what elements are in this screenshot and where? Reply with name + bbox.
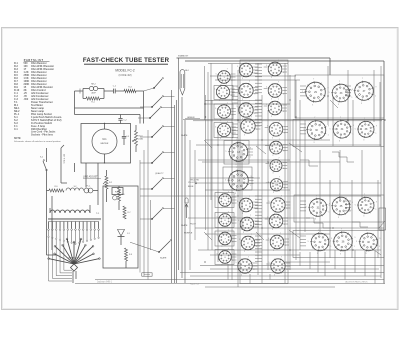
svg-text:R-7: R-7	[128, 212, 131, 214]
meter M-1	[92, 129, 117, 154]
svg-text:5: 5	[226, 151, 227, 153]
svg-text:YELLOW: YELLOW	[190, 180, 199, 182]
label YELLOW BLUE	[188, 182, 197, 188]
tube socket 38	[355, 118, 377, 141]
svg-text:9: 9	[376, 202, 377, 204]
svg-text:1: 1	[254, 269, 255, 271]
svg-text:7: 7	[281, 257, 282, 259]
svg-text:7: 7	[250, 215, 251, 217]
switch S-1e	[140, 178, 175, 190]
svg-text:1: 1	[255, 227, 256, 229]
svg-text:3: 3	[312, 105, 313, 107]
interconnect horizontal wires	[75, 76, 385, 287]
svg-text:5: 5	[216, 73, 217, 75]
svg-text:3: 3	[242, 99, 243, 101]
switch S-3 power	[40, 148, 47, 191]
svg-text:7: 7	[341, 229, 342, 231]
svg-text:7: 7	[279, 139, 280, 141]
svg-text:3: 3	[220, 119, 221, 121]
svg-text:7: 7	[226, 83, 227, 85]
svg-text:5: 5	[236, 262, 237, 264]
resistor R-7	[123, 206, 130, 219]
svg-text:7: 7	[249, 81, 250, 83]
svg-text:5: 5	[217, 196, 218, 198]
svg-text:7: 7	[249, 101, 250, 103]
svg-text:9: 9	[352, 202, 353, 204]
svg-text:3: 3	[315, 219, 316, 221]
svg-text:9: 9	[328, 88, 329, 90]
svg-text:1: 1	[287, 208, 288, 210]
svg-text:1: 1	[283, 111, 284, 113]
transformer T-1 secondary taps	[48, 222, 100, 231]
svg-text:1: 1	[287, 269, 288, 271]
svg-text:X-1: X-1	[14, 128, 18, 131]
svg-text:9: 9	[353, 125, 354, 127]
svg-text:1: 1	[250, 156, 251, 158]
svg-text:7: 7	[279, 158, 280, 160]
tube socket 14	[225, 167, 252, 195]
svg-text:1: 1	[328, 134, 329, 136]
svg-text:5: 5	[225, 180, 226, 182]
svg-text:METER: METER	[101, 143, 109, 145]
tube socket 21	[266, 99, 284, 118]
svg-text:3: 3	[244, 251, 245, 253]
svg-text:7: 7	[318, 230, 319, 232]
wire left drop	[47, 191, 57, 256]
svg-text:S-2: S-2	[74, 186, 77, 188]
svg-text:7: 7	[279, 120, 280, 122]
meter M-1 box	[81, 124, 131, 164]
tube socket 20	[266, 82, 284, 101]
svg-text:3: 3	[243, 232, 244, 234]
terminal strip	[142, 273, 152, 276]
fuse F-1	[112, 188, 123, 201]
svg-text:3: 3	[338, 217, 339, 219]
tube socket 26	[267, 212, 285, 231]
svg-text:Jackson 648-1: Jackson 648-1	[97, 282, 113, 284]
svg-text:9: 9	[352, 89, 353, 91]
svg-text:1: 1	[379, 246, 380, 248]
svg-text:7: 7	[228, 249, 229, 251]
tube socket 25	[269, 196, 288, 216]
bias supply box	[103, 186, 138, 268]
svg-text:9: 9	[250, 148, 251, 150]
tube socket 27	[268, 233, 286, 252]
svg-text:1: 1	[250, 185, 251, 187]
tube socket 6	[217, 212, 234, 230]
svg-text:1: 1	[283, 94, 284, 96]
svg-text:1: 1	[327, 97, 328, 99]
right edge tab box	[379, 208, 386, 230]
svg-text:5: 5	[308, 241, 309, 243]
transformer T-1 primary winding	[50, 205, 100, 215]
svg-text:7: 7	[280, 233, 281, 235]
svg-text:7: 7	[278, 60, 279, 62]
tube socket 24A	[268, 177, 285, 195]
svg-text:117 V. A.C.: 117 V. A.C.	[62, 154, 65, 165]
svg-text:FAST-CHECK TUBE TESTER: FAST-CHECK TUBE TESTER	[83, 57, 170, 64]
svg-text:7: 7	[316, 195, 317, 197]
tube socket 12	[239, 117, 258, 137]
line cord plug	[61, 145, 67, 183]
svg-text:S-2: S-2	[40, 157, 43, 159]
svg-text:5: 5	[351, 90, 352, 92]
svg-text:9: 9	[379, 238, 380, 240]
svg-text:7: 7	[228, 192, 229, 194]
svg-text:3: 3	[235, 164, 236, 166]
svg-text:1: 1	[283, 72, 284, 74]
svg-text:1: 1	[256, 246, 257, 248]
junction dots	[195, 95, 385, 262]
tube socket 3	[215, 103, 233, 122]
svg-text:3: 3	[313, 142, 314, 144]
resistor R-6	[118, 188, 125, 201]
svg-text:R-2: R-2	[109, 182, 112, 184]
svg-text:1: 1	[352, 210, 353, 212]
svg-text:NE-1: NE-1	[185, 70, 189, 72]
lamp NE-2 with resistor R-1 ballast loop	[83, 84, 104, 99]
svg-text:BLUE: BLUE	[188, 186, 194, 188]
tube socket 37	[351, 78, 376, 105]
tube socket 28	[269, 257, 288, 277]
switch S-1d	[140, 152, 175, 164]
tube socket 34	[330, 117, 354, 142]
svg-text:1: 1	[255, 94, 256, 96]
svg-text:(CODE 4M): (CODE 4M)	[118, 74, 131, 77]
svg-text:5: 5	[237, 201, 238, 203]
svg-text:R-8: R-8	[129, 254, 132, 256]
svg-text:9: 9	[329, 203, 330, 205]
svg-text:3: 3	[338, 104, 339, 106]
svg-text:7: 7	[278, 82, 279, 84]
svg-text:7: 7	[228, 212, 229, 214]
horizontal bus top	[177, 58, 331, 75]
tube socket 13	[226, 139, 251, 166]
svg-text:SLATE: SLATE	[160, 257, 167, 260]
svg-text:3: 3	[242, 78, 243, 80]
svg-text:9: 9	[328, 126, 329, 128]
svg-text:.002: .002	[24, 98, 29, 101]
svg-text:Sockets - Pilot lens: Sockets - Pilot lens	[31, 134, 54, 137]
svg-text:LINE ADJUST: LINE ADJUST	[83, 176, 98, 179]
diagonal wires	[204, 100, 381, 255]
svg-text:QUALITY: QUALITY	[155, 172, 164, 175]
svg-text:1: 1	[354, 246, 355, 248]
nested tap return wires	[49, 238, 73, 281]
svg-text:STAND BY: STAND BY	[178, 55, 189, 58]
svg-text:9: 9	[376, 126, 377, 128]
svg-text:5: 5	[302, 91, 303, 93]
svg-text:7: 7	[314, 117, 315, 119]
tube socket 2	[214, 83, 232, 102]
svg-text:3: 3	[363, 216, 364, 218]
wires to filament bus	[140, 130, 151, 280]
svg-text:5: 5	[355, 205, 356, 207]
filament bus wires	[172, 58, 186, 283]
capacitor C-2	[118, 115, 127, 124]
tube socket 24	[268, 158, 284, 175]
svg-text:9: 9	[331, 238, 332, 240]
svg-text:7: 7	[227, 103, 228, 105]
svg-text:7: 7	[251, 117, 252, 119]
svg-text:7: 7	[228, 230, 229, 232]
capacitor C-1	[104, 86, 117, 94]
svg-text:3: 3	[221, 265, 222, 267]
svg-text:3: 3	[273, 192, 274, 194]
switch S-1c	[140, 126, 175, 138]
wire from ballast to meter loop	[75, 89, 144, 124]
svg-text:3: 3	[273, 250, 274, 252]
resistor R-1	[83, 97, 104, 104]
transformer T-1 core	[48, 219, 101, 220]
svg-text:1: 1	[255, 113, 256, 115]
potentiometer R-10 LOAD	[133, 125, 144, 152]
svg-text:7: 7	[249, 61, 250, 63]
rectifier X-1	[118, 230, 130, 237]
svg-text:3: 3	[363, 140, 364, 142]
svg-text:7: 7	[236, 139, 237, 141]
secondary tap drop wires	[48, 230, 99, 244]
svg-text:1: 1	[353, 133, 354, 135]
svg-text:3: 3	[220, 138, 221, 140]
tube socket 18	[236, 257, 255, 277]
tube socket 1	[216, 69, 233, 87]
svg-text:3: 3	[271, 77, 272, 79]
svg-text:5: 5	[330, 241, 331, 243]
svg-text:3: 3	[235, 193, 236, 195]
svg-text:5: 5	[269, 201, 270, 203]
svg-text:5: 5	[237, 106, 238, 108]
tube socket 33	[329, 81, 353, 106]
svg-text:3: 3	[271, 99, 272, 101]
svg-text:3: 3	[241, 275, 242, 277]
staircase wires	[300, 152, 368, 228]
resistor R-3	[115, 87, 143, 93]
neon lamp NE-1	[180, 70, 189, 95]
svg-text:1: 1	[331, 246, 332, 248]
svg-text:7: 7	[248, 257, 249, 259]
tube socket 8	[217, 249, 234, 267]
svg-text:R-6: R-6	[122, 194, 125, 196]
switch S-1a	[140, 96, 175, 108]
svg-text:1: 1	[329, 212, 330, 214]
pilot lamp PL-1	[84, 186, 93, 193]
svg-text:JACKSON FAST-CHECK: JACKSON FAST-CHECK	[345, 281, 368, 284]
svg-text:LAMP: LAMP	[91, 92, 97, 95]
svg-text:5: 5	[237, 66, 238, 68]
bias wires	[107, 186, 127, 268]
svg-text:3: 3	[366, 253, 367, 255]
tube socket 36	[330, 229, 355, 256]
svg-text:SLATE: SLATE	[181, 224, 188, 227]
selector wiper drop	[73, 271, 76, 283]
tube socket 15	[237, 196, 255, 215]
resistor R-8	[125, 248, 132, 261]
title FAST-CHECK TUBE TESTER	[83, 57, 170, 64]
svg-text:R-9: R-9	[54, 186, 57, 188]
svg-text:3: 3	[244, 135, 245, 137]
rheostat R-2 line adjust	[103, 170, 112, 196]
svg-text:7: 7	[313, 79, 314, 81]
tube socket 39	[355, 194, 377, 217]
socket pin stub wires	[230, 66, 290, 269]
svg-text:5: 5	[329, 92, 330, 94]
svg-text:3: 3	[272, 137, 273, 139]
svg-text:5: 5	[355, 129, 356, 131]
tube socket 16	[238, 215, 256, 234]
tube socket 31	[306, 195, 330, 220]
svg-text:1: 1	[285, 245, 286, 247]
svg-text:5: 5	[239, 239, 240, 241]
svg-text:7: 7	[364, 194, 365, 196]
selector switch S-4	[48, 238, 101, 271]
choke coil L-1	[66, 186, 84, 191]
svg-text:7: 7	[362, 78, 363, 80]
socket field top border	[208, 63, 288, 65]
svg-text:7: 7	[339, 194, 340, 196]
svg-text:7: 7	[281, 196, 282, 198]
svg-text:9: 9	[354, 237, 355, 239]
svg-text:1: 1	[254, 73, 255, 75]
socket bottom drop wires	[228, 250, 375, 284]
svg-text:1: 1	[257, 129, 258, 131]
tube socket 29	[302, 79, 329, 107]
svg-text:1: 1	[254, 208, 255, 210]
svg-text:7: 7	[339, 81, 340, 83]
svg-text:X-1: X-1	[127, 233, 130, 235]
svg-text:1: 1	[375, 95, 376, 97]
svg-text:5: 5	[217, 253, 218, 255]
svg-text:1: 1	[376, 133, 377, 135]
svg-text:PILOT: PILOT	[190, 224, 197, 226]
svg-text:5: 5	[214, 88, 215, 90]
label LINE ADJUST	[83, 176, 101, 179]
svg-text:5: 5	[217, 216, 218, 218]
svg-text:5: 5	[215, 126, 216, 128]
svg-text:LOAD: LOAD	[138, 138, 144, 141]
svg-text:7: 7	[227, 121, 228, 123]
svg-text:7: 7	[279, 177, 280, 179]
svg-text:7: 7	[278, 99, 279, 101]
svg-text:SLATE: SLATE	[181, 134, 188, 137]
capacitor C-3 across meter	[122, 130, 129, 145]
svg-text:Schematic shows all switches i: Schematic shows all switches in normal p…	[14, 140, 61, 143]
svg-text:5: 5	[239, 122, 240, 124]
svg-text:3: 3	[273, 173, 274, 175]
switch S-1b	[138, 107, 175, 119]
svg-text:3: 3	[361, 103, 362, 105]
svg-text:5: 5	[306, 207, 307, 209]
socket group boxes	[214, 60, 384, 284]
wires below meter box	[75, 163, 99, 191]
svg-text:1: 1	[284, 224, 285, 226]
svg-text:3: 3	[274, 275, 275, 277]
svg-text:7: 7	[279, 212, 280, 214]
meter terminals	[104, 123, 105, 164]
svg-text:3: 3	[272, 155, 273, 157]
tube socket 9	[237, 61, 255, 80]
svg-text:9: 9	[375, 87, 376, 89]
svg-text:3: 3	[271, 116, 272, 118]
switch S-1 top	[144, 78, 164, 92]
horizontal bus 2	[185, 61, 384, 284]
svg-text:1: 1	[376, 209, 377, 211]
svg-text:3: 3	[242, 213, 243, 215]
svg-text:M-1: M-1	[102, 138, 107, 141]
tube socket 17	[239, 234, 257, 253]
tube socket 4	[215, 121, 233, 140]
svg-text:7: 7	[227, 69, 228, 71]
svg-text:5: 5	[217, 235, 218, 237]
svg-text:3: 3	[272, 229, 273, 231]
svg-text:3: 3	[221, 246, 222, 248]
svg-text:7: 7	[236, 167, 237, 169]
tube socket 35	[329, 194, 353, 219]
svg-text:1: 1	[352, 97, 353, 99]
tube socket 5	[217, 192, 234, 210]
svg-text:3: 3	[339, 141, 340, 143]
svg-text:C-3: C-3	[126, 136, 129, 138]
tube socket 11	[237, 101, 256, 121]
svg-text:7: 7	[340, 117, 341, 119]
resistor R-9	[49, 186, 64, 192]
tube socket 22	[267, 120, 285, 139]
svg-text:3: 3	[221, 228, 222, 230]
svg-text:SELECTOR: SELECTOR	[68, 258, 80, 260]
svg-text:5: 5	[238, 220, 239, 222]
svg-text:3: 3	[221, 208, 222, 210]
svg-text:5: 5	[237, 87, 238, 89]
svg-text:5: 5	[304, 129, 305, 131]
parts list	[14, 59, 62, 143]
svg-text:PL-1: PL-1	[87, 186, 91, 188]
switch S-1f	[140, 208, 175, 220]
tube socket 10	[237, 81, 256, 101]
svg-text:5: 5	[269, 262, 270, 264]
svg-text:3: 3	[219, 100, 220, 102]
svg-text:MODEL FC-2: MODEL FC-2	[115, 69, 134, 73]
svg-text:1: 1	[284, 132, 285, 134]
svg-text:7: 7	[366, 230, 367, 232]
svg-text:7: 7	[249, 196, 250, 198]
tube socket 30	[304, 117, 329, 144]
svg-text:3: 3	[242, 119, 243, 121]
label YELLOW upper	[190, 180, 199, 182]
svg-text:5: 5	[329, 205, 330, 207]
svg-text:PURPLE: PURPLE	[184, 233, 193, 235]
wire lower tie	[75, 108, 141, 124]
svg-text:3: 3	[340, 253, 341, 255]
svg-text:5: 5	[215, 108, 216, 110]
label GREEN	[185, 117, 200, 119]
tube socket 40	[356, 230, 380, 255]
svg-text:NOTE:: NOTE:	[14, 138, 21, 140]
pilot lamp arrow	[185, 198, 197, 226]
svg-text:7: 7	[364, 118, 365, 120]
pin stub ladder wires	[232, 64, 351, 262]
tube socket 23	[268, 139, 285, 157]
svg-text:7: 7	[251, 234, 252, 236]
switch S-1g	[130, 240, 172, 260]
svg-text:5: 5	[356, 241, 357, 243]
svg-text:5: 5	[330, 129, 331, 131]
tube socket 19	[266, 60, 284, 79]
wire primary row	[47, 191, 99, 206]
tube socket 7	[217, 230, 234, 248]
interconnect vertical wires	[190, 63, 381, 287]
tube socket 32	[308, 230, 332, 255]
svg-text:Figure 5-1: Figure 5-1	[190, 284, 200, 286]
